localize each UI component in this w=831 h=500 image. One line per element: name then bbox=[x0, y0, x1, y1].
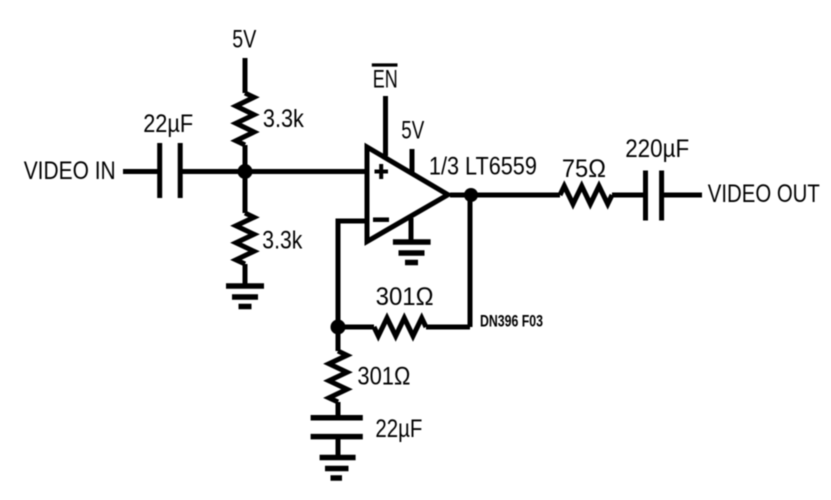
ground below op-amp bbox=[393, 242, 431, 263]
wire node B up to minus input bbox=[336, 221, 341, 327]
svg-text:220µF: 220µF bbox=[625, 135, 689, 163]
svg-text:3.3k: 3.3k bbox=[263, 105, 304, 133]
wire 5V supply pin bbox=[410, 149, 415, 173]
svg-text:75Ω: 75Ω bbox=[562, 155, 606, 183]
svg-text:301Ω: 301Ω bbox=[357, 363, 410, 391]
wire input lead bbox=[123, 169, 158, 174]
ground bottom bbox=[320, 458, 356, 479]
wire feedback right vertical bbox=[468, 195, 473, 327]
resistor R1 3.3k bbox=[236, 93, 254, 145]
svg-text:5V: 5V bbox=[232, 26, 256, 54]
op-amp plus input sign bbox=[375, 164, 389, 179]
svg-text:DN396 F03: DN396 F03 bbox=[480, 312, 543, 330]
resistor R3 75 ohm bbox=[560, 186, 612, 204]
capacitor C1 22uF input bbox=[160, 143, 181, 198]
svg-text:22µF: 22µF bbox=[143, 110, 193, 138]
wire op-amp ground pin bbox=[409, 218, 414, 240]
svg-text:VIDEO OUT: VIDEO OUT bbox=[708, 180, 820, 208]
svg-text:301Ω: 301Ω bbox=[376, 283, 434, 311]
resistor R4 301 ohm feedback bbox=[374, 318, 426, 336]
op-amp minus input sign bbox=[373, 217, 389, 222]
wire minus input lead bbox=[336, 219, 368, 224]
resistor R5 301 ohm bbox=[329, 351, 347, 402]
capacitor C3 22uF bottom bbox=[311, 418, 363, 437]
wire R4 to node B bbox=[338, 325, 374, 330]
svg-text:1/3 LT6559: 1/3 LT6559 bbox=[429, 153, 537, 181]
svg-text:22µF: 22µF bbox=[375, 415, 422, 443]
wire R5 to C3 bbox=[336, 402, 341, 415]
wire R1 to node A bbox=[243, 145, 248, 172]
wire feedback horizontal right bbox=[426, 325, 470, 330]
wire node B down to R5 bbox=[336, 327, 341, 351]
wire R3 to C2 bbox=[612, 193, 643, 198]
node A junction dot bbox=[238, 164, 253, 179]
node B junction dot bbox=[331, 320, 346, 335]
ground below R2 bbox=[226, 286, 264, 307]
capacitor C2 220uF bbox=[646, 171, 662, 221]
svg-text:3.3k: 3.3k bbox=[262, 227, 302, 255]
resistor R2 3.3k bbox=[236, 213, 254, 264]
wire C3 to ground bbox=[336, 439, 341, 455]
wire C2 to output bbox=[664, 193, 702, 198]
wire node A to R2 bbox=[243, 172, 248, 214]
svg-text:VIDEO IN: VIDEO IN bbox=[24, 157, 116, 185]
node output dot bbox=[464, 188, 478, 202]
wire 5V to R1 bbox=[243, 58, 248, 93]
svg-text:5V: 5V bbox=[401, 117, 424, 145]
wire C1 to op-amp + input bbox=[183, 169, 368, 174]
svg-text:EN: EN bbox=[373, 66, 398, 94]
wire op-amp output bbox=[450, 193, 560, 198]
wire R2 to ground bbox=[243, 264, 248, 284]
op-amp U1 triangle bbox=[367, 147, 448, 242]
wire EN pin bbox=[383, 96, 388, 156]
EN overline bar bbox=[372, 63, 398, 66]
